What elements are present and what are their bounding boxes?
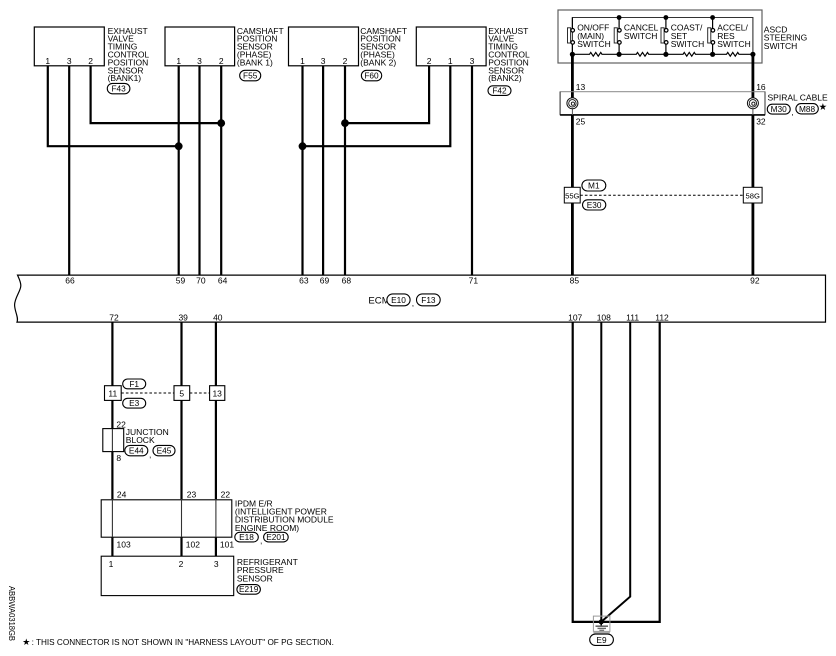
svg-text:,: ,: [149, 450, 151, 460]
svg-text:E10: E10: [391, 295, 406, 305]
svg-text:(BANK 1): (BANK 1): [237, 57, 273, 67]
svg-text:2: 2: [179, 559, 184, 569]
ECM band outline: [15, 275, 826, 322]
junction dot bottom bus s1: [570, 52, 575, 57]
svg-text:E18: E18: [239, 532, 254, 542]
on/off switch bar: [568, 28, 571, 43]
inline connector box 11: [105, 386, 122, 401]
wire junction block to IPDM: [111, 451, 113, 499]
spiral cable box: [560, 92, 765, 115]
wire thin inside IPDM pin 22 to 101: [215, 499, 217, 537]
connector label oval E30: [583, 200, 606, 210]
spiral cable box bottom edge: [560, 114, 765, 116]
svg-text:22: 22: [116, 419, 126, 429]
svg-text:SWITCH: SWITCH: [717, 39, 751, 49]
svg-text:F42: F42: [492, 85, 507, 95]
wire F42 pin2 to F60 pin2 junction: [345, 66, 429, 123]
svg-text:63: 63: [299, 276, 309, 286]
svg-text:2: 2: [219, 56, 224, 66]
svg-text:102: 102: [186, 540, 200, 550]
svg-text:71: 71: [469, 276, 479, 286]
connector box F43: [34, 27, 104, 66]
wire F55 pin3 to ECM 70: [198, 66, 200, 275]
connector label oval E10: [387, 294, 410, 306]
connector box F55: [165, 27, 235, 66]
svg-text:23: 23: [187, 490, 197, 500]
svg-text:58G: 58G: [746, 192, 760, 201]
svg-text:SENSOR: SENSOR: [237, 573, 273, 583]
dashed link 5 to 13: [190, 392, 210, 394]
on/off switch branch wire: [571, 18, 573, 55]
svg-text:★: ★: [819, 102, 828, 113]
svg-text:,: ,: [412, 298, 414, 308]
svg-text:85: 85: [570, 276, 580, 286]
junction dot bottom bus s2: [617, 52, 622, 57]
connector label oval F43: [107, 83, 130, 93]
svg-text:SWITCH: SWITCH: [577, 39, 611, 49]
wire F60 pin3 to ECM 69: [322, 66, 324, 275]
IPDM E/R box: [101, 500, 232, 537]
svg-text:,: ,: [791, 107, 793, 117]
spiral cable thin wire segment right: [752, 109, 754, 115]
wire F42 pin3 to ECM 71: [471, 66, 473, 275]
svg-text:64: 64: [218, 276, 228, 286]
junction dot on F60 pin2 wire: [341, 119, 349, 127]
svg-text:13: 13: [212, 388, 222, 398]
svg-text:107: 107: [568, 312, 582, 322]
connector label oval E219: [237, 585, 261, 595]
svg-text:F1: F1: [129, 379, 139, 389]
ground stub: [600, 622, 602, 626]
junction dot on F55 pin1 wire: [175, 142, 183, 150]
wire F60 pin1 to ECM 63: [301, 66, 303, 275]
splice 58G box: [743, 187, 762, 203]
svg-text:BLOCK: BLOCK: [126, 435, 155, 445]
connector label oval F55: [240, 70, 261, 81]
inline connector box 13: [210, 386, 225, 401]
junction dot bottom bus s3: [663, 52, 668, 57]
svg-text:2: 2: [343, 56, 348, 66]
svg-text:,: ,: [260, 536, 262, 546]
svg-text:2: 2: [427, 56, 432, 66]
svg-text:(BANK 2): (BANK 2): [360, 57, 396, 67]
junction block box: [103, 429, 124, 452]
svg-text:E45: E45: [157, 446, 172, 456]
svg-text:M30: M30: [771, 104, 788, 114]
ASCD inner bus frame: [572, 18, 753, 55]
svg-text:70: 70: [196, 276, 206, 286]
svg-text:8: 8: [116, 453, 121, 463]
svg-text:1: 1: [109, 559, 114, 569]
wire IPDM 101 to sensor pin 3: [215, 537, 217, 556]
svg-text:25: 25: [576, 116, 586, 126]
svg-text:M88: M88: [799, 104, 816, 114]
svg-text:(BANK2): (BANK2): [488, 73, 522, 83]
connector box F42: [416, 27, 486, 66]
wire ECM 111 to ground junction: [601, 322, 630, 622]
coast/set switch contact top: [664, 29, 668, 33]
dashed link 55G to 58G: [580, 194, 743, 196]
svg-text:3: 3: [321, 56, 326, 66]
on/off switch contact top: [571, 29, 575, 33]
svg-text:E3: E3: [129, 398, 140, 408]
cancel switch contact top: [618, 29, 622, 33]
wire ECM 107 and 112 down to ground bus: [573, 322, 660, 622]
svg-text:E9: E9: [596, 635, 607, 645]
connector label oval E3: [123, 398, 146, 408]
svg-text:5: 5: [179, 388, 184, 398]
svg-text:112: 112: [655, 312, 669, 322]
splice 55G box: [564, 187, 580, 203]
ground box bottom shade: [593, 632, 610, 634]
connector label oval F1: [123, 379, 146, 389]
svg-text:F55: F55: [243, 71, 258, 81]
wire F60 pin2 to ECM 68: [344, 66, 346, 275]
connector label oval E44: [125, 445, 148, 455]
svg-text:32: 32: [756, 116, 766, 126]
junction dot on F55 pin2 wire: [217, 119, 225, 127]
svg-text:68: 68: [342, 276, 352, 286]
svg-text:F13: F13: [421, 295, 436, 305]
svg-text:F60: F60: [364, 71, 379, 81]
svg-text:1: 1: [176, 56, 181, 66]
svg-text:13: 13: [576, 82, 586, 92]
svg-text:SWITCH: SWITCH: [764, 41, 798, 51]
svg-text:22: 22: [221, 490, 231, 500]
svg-text:E201: E201: [266, 532, 286, 542]
ground symbol bars: [596, 625, 609, 627]
cancel switch bar: [614, 28, 617, 43]
svg-text:(BANK1): (BANK1): [108, 73, 142, 83]
refrigerant pressure sensor box: [101, 556, 234, 595]
junction dot top bus s4: [710, 15, 715, 20]
junction dot top bus s2: [617, 15, 622, 20]
svg-text:69: 69: [320, 276, 330, 286]
svg-text:M1: M1: [588, 181, 600, 191]
cancel switch branch wire: [618, 18, 620, 55]
wire connector 11 to junction block: [111, 400, 113, 429]
spiral cable connector symbol right: [747, 98, 758, 109]
svg-text:3: 3: [214, 559, 219, 569]
inline connector box 5: [174, 386, 190, 401]
svg-text:F43: F43: [111, 84, 126, 94]
svg-text:★: ★: [22, 637, 30, 647]
svg-text:E219: E219: [239, 584, 259, 594]
svg-text:E30: E30: [587, 200, 602, 210]
on/off switch contact bottom: [571, 41, 575, 45]
svg-text:16: 16: [756, 82, 766, 92]
wire thin inside IPDM pin 24 to 103: [111, 499, 113, 537]
dashed link 11 to 5: [121, 392, 174, 394]
connector label oval M30: [767, 104, 790, 114]
svg-text:1: 1: [448, 56, 453, 66]
ASCD bottom bus with resistors: [572, 52, 753, 56]
svg-text:59: 59: [176, 276, 186, 286]
svg-text:103: 103: [117, 540, 131, 550]
accel/res switch bar: [708, 28, 711, 43]
svg-text:101: 101: [220, 540, 234, 550]
wire ECM 108 to ground junction: [600, 322, 602, 622]
connector label oval M88: [796, 104, 818, 114]
wire ECM 40 to connector 13: [215, 322, 217, 386]
wire F43 pin1 to F55 pin1 junction: [48, 66, 179, 146]
svg-text:ABBWA0318GB: ABBWA0318GB: [7, 586, 17, 641]
svg-text:: THIS CONNECTOR IS NOT SHOWN: : THIS CONNECTOR IS NOT SHOWN IN "HARNES…: [32, 638, 334, 647]
svg-text:SWITCH: SWITCH: [624, 31, 658, 41]
svg-text:E44: E44: [129, 446, 144, 456]
svg-text:3: 3: [197, 56, 202, 66]
junction dot bottom bus s4: [710, 52, 715, 57]
coast/set switch contact bottom: [664, 41, 668, 45]
wire F55 pin1 to ECM 59: [178, 66, 180, 275]
accel/res switch contact bottom: [711, 41, 715, 45]
wire F42 pin1 to F60 pin1 junction: [303, 66, 451, 146]
wire connector 5 to IPDM: [180, 400, 182, 499]
svg-text:3: 3: [67, 56, 72, 66]
coast/set switch bar: [661, 28, 664, 43]
connector label oval F60: [361, 70, 381, 81]
junction dot bottom bus right: [750, 52, 755, 57]
wire F43 pin3 to ECM 66: [68, 66, 70, 275]
connector label oval E201: [264, 532, 289, 542]
svg-text:55G: 55G: [565, 192, 579, 201]
svg-text:66: 66: [65, 276, 75, 286]
coast/set switch branch wire: [665, 18, 667, 55]
svg-text:SWITCH: SWITCH: [671, 39, 705, 49]
wire F43 pin2 to F55 pin2 junction: [91, 66, 222, 123]
accel/res switch contact top: [711, 29, 715, 33]
wire connector 13 to IPDM: [215, 400, 217, 499]
svg-text:39: 39: [178, 312, 188, 322]
svg-text:108: 108: [597, 312, 611, 322]
wire F55 pin2 to ECM 64: [220, 66, 222, 275]
ground box: [593, 616, 610, 631]
accel/res switch branch wire: [712, 18, 714, 55]
connector label oval E18: [235, 532, 258, 542]
svg-text:111: 111: [626, 312, 639, 322]
cancel switch contact bottom: [618, 41, 622, 45]
svg-text:1: 1: [300, 56, 305, 66]
svg-text:1: 1: [45, 56, 50, 66]
connector box F60: [289, 27, 359, 66]
wire IPDM 103 to sensor pin 1: [111, 537, 113, 556]
svg-text:11: 11: [108, 388, 117, 398]
svg-text:SPIRAL CABLE: SPIRAL CABLE: [768, 93, 828, 103]
wire IPDM 102 to sensor pin 2: [180, 537, 182, 556]
wire thin inside junction block: [111, 429, 113, 451]
spiral cable connector symbol left: [567, 98, 578, 109]
wire thin inside IPDM pin 23 to 102: [181, 499, 183, 537]
connector label oval M1: [582, 180, 606, 191]
connector label oval F13: [417, 294, 441, 306]
wire ASCD left output to ECM 85: [571, 54, 574, 275]
ground junction dot: [599, 619, 604, 624]
connector label oval E45: [153, 445, 175, 455]
spiral cable thin wire segment left: [571, 109, 573, 115]
svg-text:92: 92: [750, 276, 760, 286]
junction dot top bus s3: [664, 15, 669, 20]
svg-text:24: 24: [117, 490, 127, 500]
connector label oval E9: [590, 634, 614, 645]
ASCD steering switch outer box: [558, 10, 762, 63]
connector label oval F42: [488, 86, 511, 96]
spiral cable box side edges: [560, 92, 765, 115]
svg-text:72: 72: [109, 312, 119, 322]
wire ECM 72 to connector 11: [111, 322, 113, 386]
wire ASCD right output to ECM 92: [752, 54, 755, 275]
svg-text:2: 2: [88, 56, 93, 66]
svg-text:40: 40: [213, 312, 223, 322]
junction dot on F60 pin1 wire: [299, 142, 307, 150]
wire ECM 39 to connector 5: [180, 322, 182, 386]
svg-text:3: 3: [470, 56, 475, 66]
